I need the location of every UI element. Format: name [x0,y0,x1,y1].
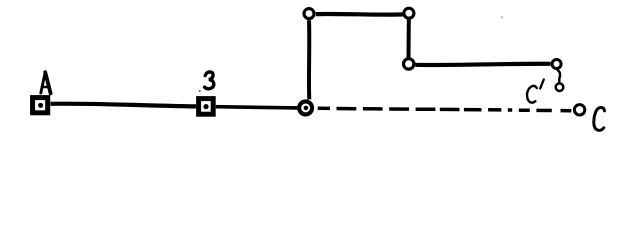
label C [594,107,605,130]
top link D-E (wire) [316,12,403,17]
link A-B (wire) [51,104,197,107]
pivot dot B [203,104,208,109]
link B-O (wire) [216,107,297,108]
faint scan speck [501,16,503,18]
joint c' (small open circle) [556,83,564,91]
ink speck below label B [199,90,201,92]
joint G (right upper open circle) [552,60,561,69]
label A [41,72,51,93]
hinge B (pivot square) [199,99,214,115]
joint O (junction circle with dot) [299,101,312,114]
label B (Cyrillic 3-shaped) [205,72,214,89]
vertical link O-D (wire) [307,20,311,99]
joint F (middle open circle) [404,59,414,69]
pivot dot A [38,103,43,108]
link F-G (wire) [415,64,550,65]
vertical link E-F (wire) [407,20,411,58]
joint E (top-right open circle) [404,8,414,18]
dash-dot axis O-C (center line) [318,108,572,110]
hinge A (fixed pivot square) [33,98,48,113]
joint D (top-left open circle) [304,9,314,19]
label c' [527,79,544,102]
terminal C (small open circle) [574,105,584,115]
joint O center dot [304,106,309,111]
short link G-c' (curved stroke) [557,70,560,83]
